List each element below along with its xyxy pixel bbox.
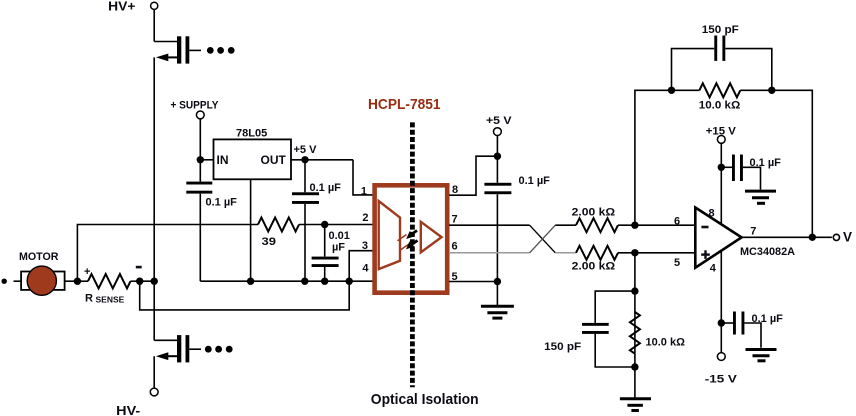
svg-text:R: R (85, 293, 93, 305)
svg-text:HV-: HV- (116, 403, 140, 416)
svg-text:1: 1 (361, 186, 367, 198)
svg-text:7: 7 (452, 214, 458, 226)
svg-text:39: 39 (262, 236, 277, 248)
svg-text:-15 V: -15 V (705, 374, 738, 386)
svg-text:150 pF: 150 pF (544, 341, 581, 353)
svg-text:Optical Isolation: Optical Isolation (371, 391, 479, 408)
svg-text:MOTOR: MOTOR (19, 251, 59, 263)
svg-text:150 pF: 150 pF (702, 24, 739, 36)
svg-text:2.00 kΩ: 2.00 kΩ (572, 206, 616, 218)
svg-text:8: 8 (452, 184, 458, 196)
svg-text:HCPL-7851: HCPL-7851 (368, 96, 441, 113)
svg-text:2: 2 (362, 212, 368, 224)
svg-text:7: 7 (750, 226, 756, 238)
svg-text:MC34082A: MC34082A (740, 246, 795, 258)
svg-text:4: 4 (362, 263, 369, 275)
svg-text:0.1 µF: 0.1 µF (750, 157, 782, 169)
svg-text:0.01: 0.01 (329, 230, 350, 242)
svg-text:OUT: OUT (261, 153, 287, 167)
svg-text:0.1 µF: 0.1 µF (206, 197, 238, 209)
svg-text:10.0 kΩ: 10.0 kΩ (699, 100, 741, 112)
svg-text:0.1 µF: 0.1 µF (752, 313, 784, 325)
svg-text:+5 V: +5 V (294, 144, 318, 156)
svg-text:0.1 µF: 0.1 µF (519, 175, 551, 187)
svg-text:5: 5 (674, 257, 680, 269)
svg-text:+: + (84, 266, 90, 278)
svg-text:µF: µF (332, 242, 345, 254)
svg-text:6: 6 (674, 216, 680, 228)
svg-text:10.0 kΩ: 10.0 kΩ (646, 336, 686, 348)
svg-text:HV+: HV+ (108, 0, 136, 13)
svg-text:V: V (843, 230, 852, 245)
svg-text:0.1 µF: 0.1 µF (310, 182, 342, 194)
svg-text:SENSE: SENSE (96, 295, 125, 305)
svg-text:IN: IN (217, 153, 229, 167)
svg-text:6: 6 (452, 241, 458, 253)
svg-text:+ SUPPLY: + SUPPLY (171, 100, 220, 112)
svg-text:3: 3 (362, 240, 368, 252)
svg-text:8: 8 (709, 208, 715, 220)
svg-text:78L05: 78L05 (236, 128, 267, 140)
svg-text:4: 4 (710, 263, 717, 275)
svg-text:+5 V: +5 V (486, 115, 512, 127)
svg-text:2.00 kΩ: 2.00 kΩ (572, 261, 616, 273)
